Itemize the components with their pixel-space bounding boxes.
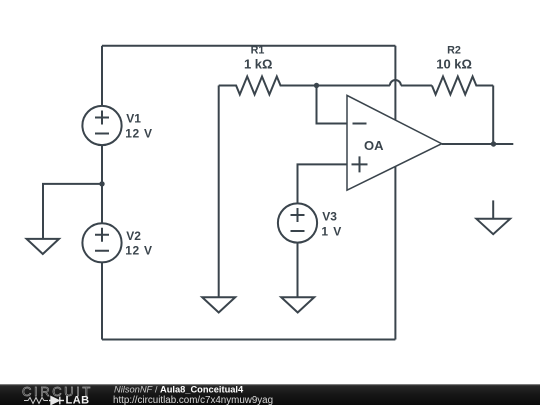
resistor R1: [219, 77, 317, 95]
ground G3: [281, 297, 314, 312]
svg-text:R1: R1: [251, 45, 265, 57]
wire hop to R2 left lead: [401, 85, 432, 87]
wire from mid junction left to ground G1: [43, 184, 102, 239]
footer title text: [114, 384, 244, 394]
label V2: [125, 229, 153, 258]
label R1: [244, 45, 273, 72]
label V3: [321, 210, 342, 239]
wire non-inverting input feed from V3: [298, 164, 348, 203]
voltage source V2: [82, 223, 121, 262]
svg-text:V2: V2: [126, 229, 141, 243]
wire negative supply vertical from op-amp bottom to bottom rail: [394, 166, 396, 340]
ground G2: [202, 297, 235, 312]
node V1-V2 junction: [99, 181, 104, 186]
wire R1/R2 node to hop: [317, 85, 390, 87]
svg-text:1 V: 1 V: [321, 225, 342, 239]
wire hop over supply wire: [390, 80, 401, 86]
wire V3 bottom lead to ground G3: [297, 243, 299, 298]
ground G4 floating: [476, 200, 510, 234]
voltage source V3: [278, 203, 317, 242]
svg-text:12 V: 12 V: [125, 126, 153, 140]
logo CIRCUIT LAB: [22, 384, 93, 405]
ground G1: [27, 239, 59, 254]
svg-text:1 kΩ: 1 kΩ: [244, 57, 273, 72]
label V1: [125, 112, 153, 141]
svg-text:V1: V1: [126, 112, 141, 126]
resistor R2: [432, 77, 493, 95]
svg-text:R2: R2: [447, 45, 461, 57]
op-amp OA: [347, 95, 442, 190]
node output junction: [491, 141, 496, 146]
svg-text:NilsonNF / Aula8_Conceitual4: NilsonNF / Aula8_Conceitual4: [114, 384, 244, 394]
node R1-R2-inverting junction: [314, 83, 319, 88]
svg-text:OA: OA: [364, 138, 384, 153]
svg-text:10 kΩ: 10 kΩ: [436, 57, 472, 72]
svg-text:LAB: LAB: [66, 394, 90, 405]
voltage source V1: [82, 106, 121, 145]
footer url text: [113, 395, 273, 405]
label R2: [436, 45, 472, 72]
footer bar: [0, 384, 540, 405]
wire R2 right lead down to output node: [492, 86, 494, 145]
wire op-amp output: [442, 143, 514, 145]
wire inverting input feed: [317, 86, 348, 124]
wire V2 bottom lead up from bottom rail: [101, 262, 103, 339]
wire V1-V2 middle link: [101, 145, 103, 223]
svg-text:12 V: 12 V: [125, 244, 153, 258]
wire top rail horizontal: [102, 45, 395, 47]
wire positive supply vertical into op-amp top: [394, 46, 396, 121]
wire R1 left lead vertical down to ground G2: [218, 86, 220, 298]
svg-text:V3: V3: [322, 210, 337, 224]
wire bottom rail horizontal: [102, 339, 395, 341]
wire V1 top lead up to top rail corner: [101, 46, 103, 106]
svg-text:http://circuitlab.com/c7x4nymu: http://circuitlab.com/c7x4nymuw9yag: [113, 395, 273, 405]
